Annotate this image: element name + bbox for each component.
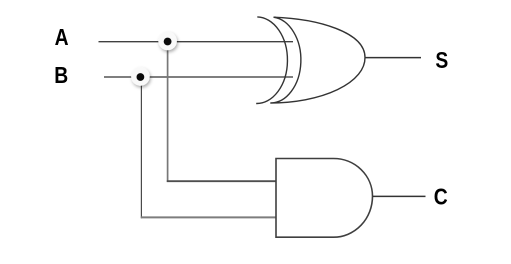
wire segment: horizontal run to AND gate top input (167, 180, 276, 182)
svg-text:A: A (55, 26, 69, 51)
wire XOR output to S (365, 57, 421, 59)
svg-text:B: B (54, 64, 68, 89)
and-gate U2 (carry) body (276, 159, 373, 238)
svg-text:C: C (434, 185, 448, 210)
junction node A (dot on wire A) (158, 32, 177, 51)
xor-gate U1 (sum) input arc (256, 17, 287, 104)
wire segment: vertical drop from node A (167, 42, 169, 182)
xor-gate U1 (sum) body (270, 17, 365, 103)
svg-text:S: S (435, 49, 448, 74)
wire segment: vertical drop from node B (140, 77, 142, 218)
junction node B (dot on wire B) (131, 67, 150, 86)
wire A (input A to XOR gate) (99, 41, 294, 43)
wire segment: horizontal run to AND gate bottom input (141, 216, 276, 218)
wire B (input B to XOR gate) (104, 76, 293, 78)
wire AND output to C (373, 195, 426, 197)
